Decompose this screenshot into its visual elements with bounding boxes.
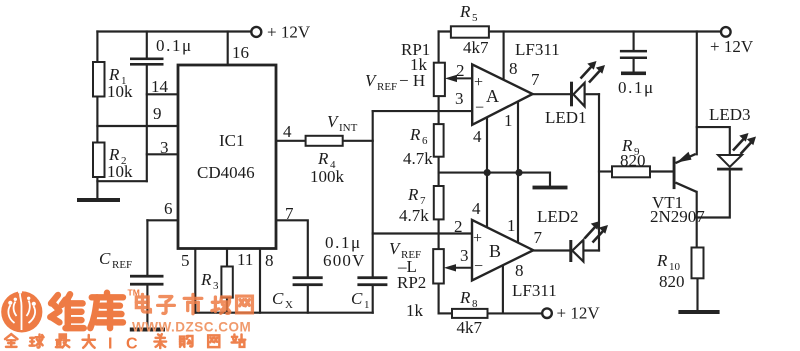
watermark bbox=[1, 290, 42, 333]
svg-text:C: C bbox=[126, 336, 138, 351]
wire opamp B pin8 vertical bbox=[502, 265, 504, 313]
svg-text:+: + bbox=[473, 230, 482, 247]
svg-text:5: 5 bbox=[472, 12, 478, 24]
wire opamp A/B pin4 shared vertical bbox=[486, 117, 488, 227]
svg-text:IC1: IC1 bbox=[219, 131, 245, 150]
svg-text:−: − bbox=[475, 100, 484, 117]
wire R3 leads bbox=[226, 249, 228, 313]
svg-text:0.1μ: 0.1μ bbox=[156, 36, 193, 55]
wire LED2 to right vertical bbox=[584, 249, 599, 251]
wire Cref vertical lead bbox=[146, 220, 148, 274]
svg-text:4: 4 bbox=[473, 127, 482, 146]
capacitor C3 bypass plates bbox=[620, 50, 647, 53]
wire A output to LED1 bbox=[533, 93, 570, 95]
wire mid junction line bbox=[439, 173, 550, 186]
svg-text:RP2: RP2 bbox=[397, 273, 426, 292]
svg-text:INT: INT bbox=[339, 122, 358, 134]
svg-text:+ 12V: + 12V bbox=[710, 37, 754, 56]
wire emitter vertical from rail bbox=[696, 32, 698, 155]
wire LED3 bottom branch bbox=[697, 171, 730, 218]
svg-text:4.7k: 4.7k bbox=[399, 206, 429, 225]
wire R10 bottom lead bbox=[696, 278, 698, 310]
wire collector vertical to R10 bbox=[696, 192, 698, 248]
svg-text:0.1μ: 0.1μ bbox=[618, 78, 655, 97]
ground mid right bbox=[533, 186, 568, 190]
wire LED3 top branch bbox=[697, 127, 730, 155]
watermark brand characters Wei Ku bbox=[50, 294, 83, 328]
terminal +12V top right bbox=[721, 27, 731, 37]
svg-text:1: 1 bbox=[364, 299, 370, 311]
svg-text:4.7k: 4.7k bbox=[403, 149, 433, 168]
watermark slogan characters bbox=[5, 334, 17, 347]
wire pin 14 bbox=[147, 93, 178, 95]
wire R8 to +12V terminal bbox=[488, 312, 543, 314]
wire C1 bottom lead bbox=[372, 286, 374, 313]
watermark site name characters bbox=[136, 294, 150, 312]
svg-text:3: 3 bbox=[213, 280, 219, 292]
svg-text:2N2907: 2N2907 bbox=[650, 207, 705, 226]
wire pin 7 to Cx bbox=[276, 220, 308, 276]
svg-text:6: 6 bbox=[164, 199, 173, 218]
svg-text:4: 4 bbox=[283, 122, 292, 141]
wire top-left +12V rail bbox=[97, 30, 252, 32]
svg-text:7: 7 bbox=[285, 204, 294, 223]
wire bottom bus bbox=[195, 312, 372, 314]
node junction dot A pin4 bbox=[484, 169, 491, 176]
wire opamp A/B pin1 shared vertical bbox=[517, 101, 519, 242]
potentiometer RP2 body bbox=[433, 249, 444, 283]
ground under R10 bbox=[678, 310, 719, 314]
svg-text:2: 2 bbox=[456, 61, 465, 80]
wire pin 9 bbox=[97, 125, 178, 127]
svg-text:820: 820 bbox=[659, 272, 685, 291]
capacitor Cref plates bbox=[130, 275, 164, 278]
svg-text:3: 3 bbox=[160, 138, 169, 157]
potentiometer RP1 body bbox=[434, 63, 445, 96]
svg-text:LF311: LF311 bbox=[515, 40, 560, 59]
node junction dot A pin1 bbox=[515, 169, 522, 176]
resistor R7 bbox=[434, 186, 444, 219]
svg-text:11: 11 bbox=[237, 250, 253, 269]
resistor R6 bbox=[434, 124, 444, 157]
svg-text:7: 7 bbox=[534, 228, 543, 247]
wire LED bus to R9 bbox=[599, 170, 612, 172]
resistor R3 bbox=[221, 267, 232, 298]
terminal +12V bottom right bbox=[542, 308, 552, 318]
svg-text:R: R bbox=[200, 270, 212, 289]
RP1 wiper arrow bbox=[445, 75, 457, 82]
wire bypass cap lead bbox=[633, 32, 635, 50]
wire divider chain vertical bbox=[438, 32, 440, 314]
svg-text:+: + bbox=[474, 74, 483, 91]
svg-text:WWW.DZSC.COM: WWW.DZSC.COM bbox=[132, 320, 251, 335]
svg-text:2: 2 bbox=[454, 217, 463, 236]
wire top right +12V rail bbox=[439, 30, 722, 32]
svg-text:8: 8 bbox=[472, 298, 478, 310]
terminal +12V top left bbox=[251, 27, 261, 37]
capacitor C2 0.1u top-left plates bbox=[130, 58, 164, 61]
svg-text:CD4046: CD4046 bbox=[197, 163, 255, 182]
svg-text:8: 8 bbox=[509, 59, 518, 78]
svg-text:6: 6 bbox=[422, 135, 428, 147]
svg-text:LED3: LED3 bbox=[709, 105, 751, 124]
wire RP2 bottom to R8 bbox=[439, 312, 452, 314]
svg-text:A: A bbox=[486, 86, 499, 106]
svg-text:B: B bbox=[489, 241, 501, 261]
svg-text:+ 12V: + 12V bbox=[267, 23, 311, 42]
svg-text:C: C bbox=[99, 249, 111, 268]
wire Cx bottom lead bbox=[307, 286, 309, 313]
watermark logo disc bbox=[1, 291, 42, 332]
svg-text:600V: 600V bbox=[323, 251, 366, 270]
capacitor Cx plates bbox=[293, 276, 323, 279]
svg-text:10k: 10k bbox=[107, 162, 133, 181]
LED2 bbox=[569, 221, 608, 262]
op-amp U2 A triangle bbox=[472, 64, 532, 124]
svg-text:4k7: 4k7 bbox=[457, 318, 483, 337]
resistor R5 bbox=[451, 26, 489, 37]
svg-text:16: 16 bbox=[232, 43, 249, 62]
wire Vint to B noninverting input bbox=[373, 232, 472, 234]
svg-text:−: − bbox=[474, 258, 483, 275]
resistor R10 bbox=[692, 248, 704, 279]
svg-text:R: R bbox=[409, 125, 421, 144]
svg-text:1: 1 bbox=[504, 111, 513, 130]
wire right LED bus vertical bbox=[598, 94, 600, 250]
svg-text:1: 1 bbox=[507, 216, 516, 235]
svg-text:LF311: LF311 bbox=[512, 281, 557, 300]
wire cap/pin14/pin3 vertical bbox=[146, 66, 148, 182]
svg-text:820: 820 bbox=[620, 151, 646, 170]
svg-text:X: X bbox=[285, 299, 293, 311]
resistor R4 bbox=[306, 136, 343, 146]
wire Cref bottom lead bbox=[146, 286, 148, 328]
wire pin 5 vertical bbox=[194, 249, 196, 313]
svg-text:LED1: LED1 bbox=[545, 108, 587, 127]
resistor R9 bbox=[612, 166, 650, 177]
IC U1 CD4046 body bbox=[178, 65, 276, 249]
capacitor C1 plates bbox=[357, 276, 387, 279]
svg-text:0.1μ: 0.1μ bbox=[325, 233, 362, 252]
svg-text:14: 14 bbox=[151, 77, 169, 96]
svg-text:8: 8 bbox=[265, 251, 274, 270]
svg-text:R: R bbox=[407, 185, 419, 204]
svg-text:3: 3 bbox=[455, 89, 464, 108]
wire 0.1u cap top lead bbox=[146, 32, 148, 58]
wire pin 8 vertical bbox=[259, 249, 261, 313]
svg-text:9: 9 bbox=[153, 104, 162, 123]
RP2 wiper arrow bbox=[444, 264, 456, 271]
wire LED1 to right vertical bbox=[586, 93, 599, 95]
transistor Q1 VT1 bbox=[673, 152, 697, 192]
svg-text:R: R bbox=[459, 288, 471, 307]
svg-text:8: 8 bbox=[515, 261, 524, 280]
wire opamp A pin8 vertical bbox=[503, 32, 505, 79]
svg-text:REF: REF bbox=[112, 259, 132, 271]
svg-text:C: C bbox=[272, 289, 284, 308]
wire B output to LED2 bbox=[533, 249, 569, 251]
resistor R2 bbox=[93, 143, 105, 178]
wire Vint vertical bbox=[372, 111, 374, 276]
svg-text:3: 3 bbox=[460, 246, 469, 265]
RP2 wiper arrow shaft bbox=[454, 267, 472, 269]
resistor R1 bbox=[93, 62, 105, 97]
wire left vertical R1-R2 branch bbox=[96, 32, 98, 199]
svg-text:REF: REF bbox=[377, 81, 397, 93]
wire Vint to A inverting input bbox=[373, 110, 473, 112]
ground under Cref bbox=[130, 328, 165, 332]
svg-text:+ 12V: + 12V bbox=[557, 304, 601, 323]
svg-text:4: 4 bbox=[472, 199, 481, 218]
svg-text:1k: 1k bbox=[406, 301, 424, 320]
svg-text:− H: − H bbox=[399, 71, 425, 90]
svg-text:C: C bbox=[351, 289, 363, 308]
svg-text:7: 7 bbox=[531, 70, 540, 89]
svg-text:5: 5 bbox=[181, 251, 190, 270]
LED1 bbox=[570, 61, 605, 106]
LED3 bbox=[717, 133, 756, 171]
svg-text:100k: 100k bbox=[310, 167, 345, 186]
op-amp U3 B triangle bbox=[472, 220, 533, 281]
wire pin 16 vertical bbox=[227, 32, 229, 66]
ground under R2 bbox=[77, 198, 120, 202]
svg-text:I: I bbox=[108, 336, 112, 351]
svg-text:R: R bbox=[317, 149, 329, 168]
wire R9 to base bbox=[650, 170, 673, 172]
svg-text:LED2: LED2 bbox=[537, 207, 579, 226]
wire pin 4 to R4 to Vint node bbox=[276, 140, 373, 142]
wire bypass cap bottom lead bbox=[633, 59, 635, 72]
svg-text:R: R bbox=[459, 2, 471, 21]
svg-text:10k: 10k bbox=[107, 82, 133, 101]
wire pin 3 bbox=[147, 153, 178, 155]
resistor R8 bbox=[452, 309, 488, 318]
RP1 wiper arrow shaft bbox=[455, 77, 472, 79]
svg-text:4k7: 4k7 bbox=[463, 38, 489, 57]
svg-text:R: R bbox=[656, 251, 668, 270]
wire pin 6 bbox=[147, 219, 178, 221]
ground bypass cap bbox=[621, 72, 646, 76]
wire pin3-ground link horizontal bbox=[97, 180, 146, 182]
